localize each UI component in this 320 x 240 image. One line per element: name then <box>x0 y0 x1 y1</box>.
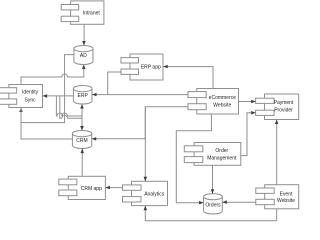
svg-text:Event: Event <box>280 191 293 197</box>
component Analytics <box>123 181 168 205</box>
svg-text:AD: AD <box>80 53 87 59</box>
wire Analytics to CRM app <box>106 186 123 190</box>
database CRM <box>72 131 91 149</box>
svg-text:Sync: Sync <box>25 97 37 103</box>
component Intranet <box>61 1 104 24</box>
svg-text:CRM app: CRM app <box>81 186 102 192</box>
svg-text:Analytics: Analytics <box>144 191 165 197</box>
component Order Management <box>184 143 241 166</box>
svg-text:Management: Management <box>207 156 237 162</box>
component Payment Provider <box>256 94 299 120</box>
svg-text:ERP: ERP <box>78 93 89 99</box>
component ERP app <box>121 54 163 80</box>
svg-text:Orders: Orders <box>205 202 221 208</box>
component Event Website <box>256 185 299 209</box>
svg-text:Website: Website <box>277 198 295 204</box>
wire Identity Sync to AD <box>21 65 86 85</box>
database Orders <box>204 194 223 214</box>
wire eCommerce to CRM <box>92 107 188 141</box>
wire eCommerce to ERP <box>92 93 188 97</box>
database ERP <box>73 86 92 104</box>
svg-text:Intranet: Intranet <box>83 11 101 17</box>
wire AD to Identity Sync <box>19 55 74 123</box>
svg-text:Payment: Payment <box>274 100 294 106</box>
wire Order Management to Payment Provider <box>241 111 256 156</box>
component Identity Sync <box>0 85 42 108</box>
svg-text:Identity: Identity <box>22 90 39 96</box>
wire eCommerce to Orders <box>176 114 211 204</box>
component CRM app <box>59 176 106 199</box>
wire ERP to Identity Sync <box>43 94 74 98</box>
wire Event Website to Analytics <box>144 206 277 221</box>
svg-text:CRM: CRM <box>76 138 87 144</box>
wire eCommerce to Payment Provider <box>239 100 256 103</box>
wire CRM app to CRM <box>81 149 85 177</box>
wire Intranet to AD <box>82 24 86 45</box>
wire branch a to CRM top <box>56 96 82 129</box>
wire ERP to CRM double <box>80 104 84 130</box>
database AD <box>74 46 93 65</box>
wire Order Management to Orders <box>211 165 214 193</box>
svg-text:eCommerce: eCommerce <box>209 95 236 101</box>
wire branch b to CRM top <box>60 96 82 129</box>
wire Event Website to Orders <box>222 200 255 204</box>
wire eCommerce to Analytics <box>144 107 148 182</box>
svg-text:Website: Website <box>213 102 231 108</box>
svg-text:Provider: Provider <box>274 108 293 114</box>
svg-text:Order: Order <box>215 148 228 154</box>
wire eCommerce to ERP app <box>163 65 213 89</box>
wire ERP app to ERP <box>108 72 121 95</box>
wire CRM to Identity Sync <box>21 108 72 139</box>
component eCommerce Website <box>188 89 239 115</box>
svg-text:ERP app: ERP app <box>141 65 161 71</box>
wire Event Website to Payment Provider <box>275 120 279 185</box>
